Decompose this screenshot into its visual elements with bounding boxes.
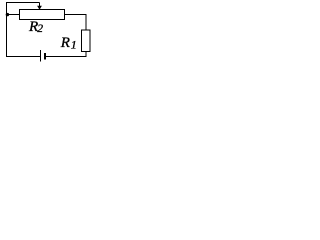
- svg-text:1: 1: [71, 38, 77, 52]
- wire top (left rail top corner to slider arrow): [7, 1, 40, 4]
- rheostat slider arrowhead: [37, 6, 42, 10]
- wire R1 bottom lead: [85, 52, 87, 58]
- battery B1 short thick plate: [44, 53, 46, 60]
- resistor R1: [82, 30, 91, 52]
- wire bottom right (R1 to battery): [46, 56, 87, 58]
- wire R2 right terminal to R1 top: [65, 15, 87, 31]
- svg-text:R: R: [60, 35, 70, 51]
- svg-text:2: 2: [37, 23, 43, 35]
- node junction dot: [6, 13, 9, 16]
- wire bottom left (battery to left rail): [6, 56, 41, 58]
- battery B1 long plate: [40, 50, 42, 62]
- rheostat slider arrow stem: [39, 3, 41, 7]
- wire R2 left terminal: [7, 14, 20, 16]
- resistor R2 (rheostat body): [20, 10, 65, 20]
- wire left rail: [6, 3, 8, 58]
